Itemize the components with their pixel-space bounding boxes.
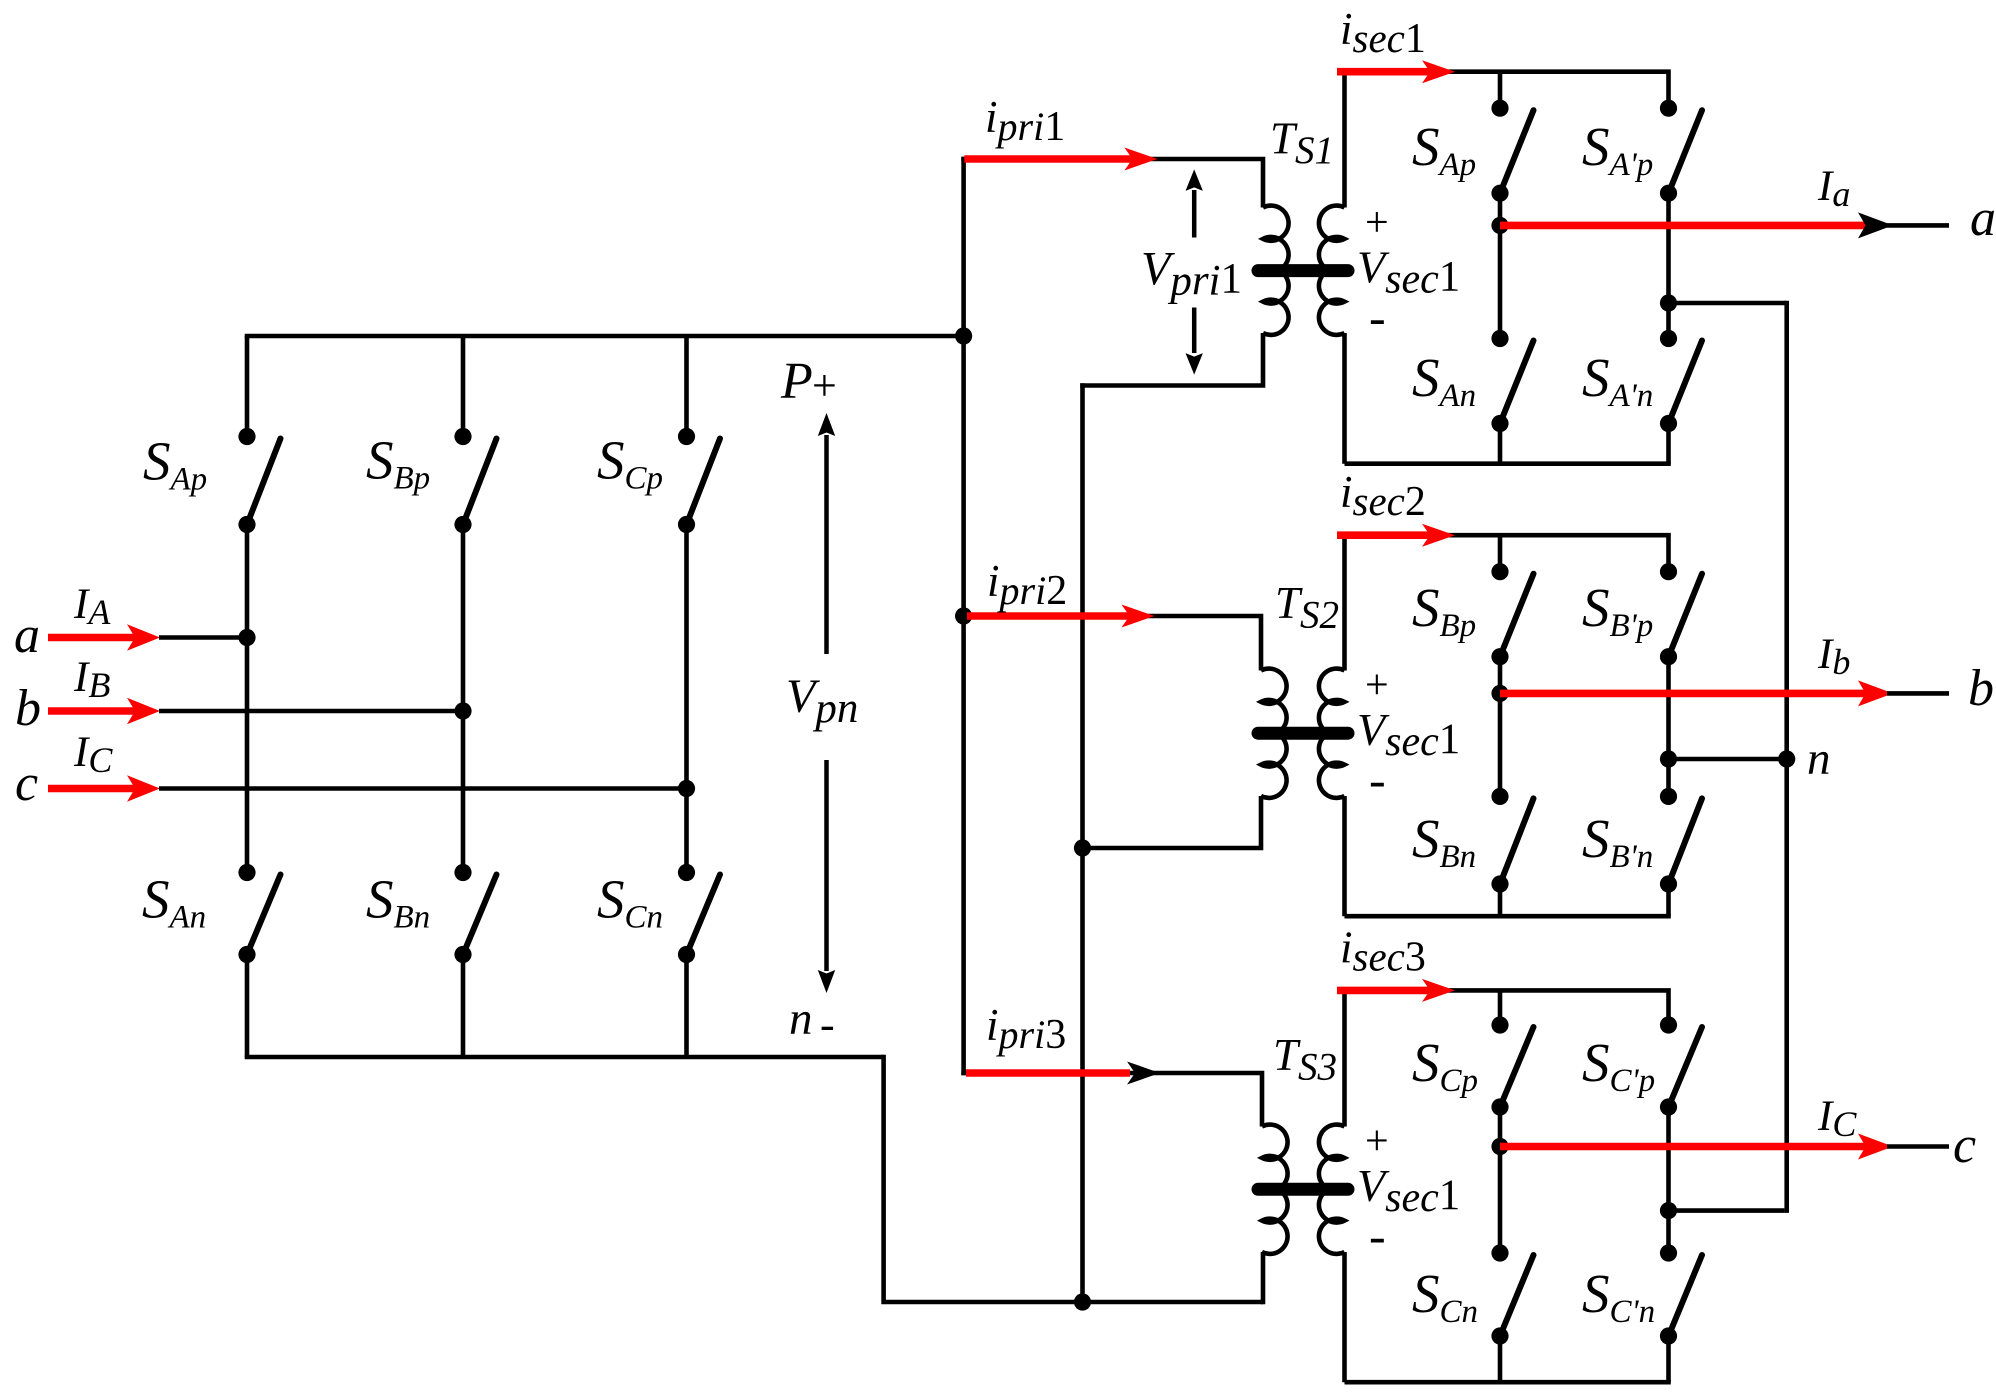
wire T_S2 secondary feed up	[1342, 535, 1347, 670]
svg-text:-: -	[1369, 752, 1386, 808]
label + V_sec3 plus	[1365, 1119, 1389, 1165]
node P bus / matrix top bus	[955, 327, 972, 344]
arrow Vpn down	[818, 760, 835, 993]
wire bridge1 right leg mid	[1666, 193, 1671, 338]
wire bridge1 left leg bottom	[1498, 424, 1503, 464]
label S_B'n	[1582, 808, 1653, 875]
transformer T_S2 secondary winding	[1319, 669, 1345, 798]
wire column A middle	[245, 525, 250, 873]
current arrow i_pri1	[964, 148, 1157, 171]
transformer T_S3 secondary winding	[1319, 1125, 1345, 1254]
wire bridge3 output to terminal c	[1887, 1144, 1949, 1149]
label S_A'p	[1582, 116, 1653, 183]
label V_sec1 on T_S3	[1357, 1160, 1460, 1221]
switch S_An	[238, 864, 280, 963]
current arrow i_sec1	[1337, 60, 1455, 83]
transformer T_S2 primary winding	[1261, 669, 1287, 798]
wire column A upper	[245, 336, 250, 437]
switch S_An	[1491, 330, 1533, 432]
label S_Bn	[366, 869, 430, 936]
wire column B middle	[461, 525, 466, 873]
svg-text:P: P	[780, 353, 813, 410]
label S_A'n	[1582, 347, 1653, 414]
label S_Ap	[1412, 116, 1476, 183]
transformer T_S2 core	[1258, 727, 1348, 740]
wire bridge1 left leg mid	[1498, 193, 1503, 338]
wire i_pri2 to T_S2 primary	[964, 616, 1261, 671]
label S_Bn	[1412, 808, 1476, 875]
label S_An	[142, 869, 206, 936]
wire n bus vertical	[1784, 301, 1789, 1213]
label I_c	[1817, 1093, 1857, 1144]
wire column C upper	[684, 336, 689, 437]
wire bridge3 bottom bus	[1345, 1380, 1671, 1385]
wire column C lower	[684, 955, 689, 1058]
node bridge2 output junction	[1491, 685, 1508, 702]
label I_b	[1817, 631, 1850, 682]
current arrow i_sec2	[1337, 524, 1455, 547]
current arrow I_c	[1500, 1134, 1893, 1160]
node c-C junction	[678, 780, 695, 797]
arrow Vpn up	[818, 413, 835, 654]
label - V_sec2 minus	[1369, 752, 1386, 808]
switch S_B'n	[1660, 788, 1702, 893]
node return bus / T_S2 return	[1074, 839, 1091, 856]
wire i_pri3 to T_S3 primary	[961, 1073, 1262, 1127]
label S_Bp	[1412, 577, 1476, 644]
label V_pn	[786, 670, 858, 732]
switch S_Bn	[454, 864, 496, 963]
node b-B junction	[454, 702, 471, 719]
switch S_Ap	[1491, 100, 1533, 202]
wire bridge2 right leg bottom	[1666, 884, 1671, 916]
switch S_C'p	[1660, 1016, 1702, 1115]
svg-text:b: b	[15, 680, 41, 737]
switch S_B'p	[1660, 563, 1702, 665]
wire column C middle	[684, 525, 689, 873]
label c output	[1953, 1117, 1976, 1174]
label i_pri2	[987, 556, 1067, 614]
node a-A junction	[238, 629, 255, 646]
svg-text:+: +	[1365, 1119, 1389, 1165]
transformer T_S3 core	[1258, 1183, 1348, 1196]
wire bridge1 bottom bus	[1345, 461, 1671, 466]
label S_Cp	[1412, 1032, 1478, 1099]
label S_Bp	[366, 430, 430, 497]
wire bridge2 left leg drop	[1498, 535, 1503, 572]
label S_B'p	[1582, 577, 1653, 644]
label P +	[780, 353, 837, 410]
switch S_C'n	[1660, 1244, 1702, 1344]
node bridge3 n junction	[1660, 1202, 1677, 1219]
svg-text:+: +	[1365, 200, 1389, 246]
label T_S3	[1273, 1030, 1337, 1089]
wire T_S3 secondary feed up	[1342, 990, 1347, 1126]
switch S_A'n	[1660, 330, 1702, 432]
switch S_A'p	[1660, 100, 1702, 202]
wire column B lower	[461, 955, 466, 1058]
wire bridge1 right leg bottom	[1666, 424, 1671, 464]
current arrow i_pri3	[966, 1062, 1160, 1085]
svg-text:-: -	[820, 1000, 835, 1049]
label S_An	[1412, 347, 1476, 414]
wire bridge3 right leg bottom	[1666, 1336, 1671, 1382]
wire primary bus P vertical	[961, 157, 966, 1076]
switch S_Ap	[238, 428, 280, 533]
label i_pri1	[985, 92, 1065, 150]
label i_pri3	[986, 1000, 1066, 1058]
wire bridge2 n link	[1669, 757, 1787, 762]
wire bridge2 left leg mid	[1498, 657, 1503, 797]
wire column B upper	[461, 336, 466, 437]
node bridge3 output junction	[1491, 1138, 1508, 1155]
wire bridge1 output to terminal a	[1887, 223, 1949, 228]
label I_C input	[73, 729, 113, 780]
wire bridge2 output to terminal b	[1887, 691, 1949, 696]
label i_sec3	[1340, 923, 1426, 981]
label V_sec1 on T_S2	[1357, 704, 1460, 765]
svg-text:-: -	[1369, 1208, 1386, 1264]
wire bridge3 right leg mid	[1666, 1107, 1671, 1253]
current arrow i_pri2	[967, 605, 1155, 628]
wire input b	[159, 709, 463, 714]
wire bridge2 left leg bottom	[1498, 884, 1503, 916]
switch S_Cp	[1491, 1016, 1533, 1115]
svg-text:n: n	[789, 993, 813, 1045]
svg-text:a: a	[14, 607, 40, 664]
wire bridge3 top bus	[1345, 990, 1669, 1025]
label T_S1	[1270, 113, 1334, 172]
label i_sec1	[1340, 4, 1426, 62]
label S_Cn	[1412, 1263, 1478, 1330]
label I_B	[73, 654, 110, 705]
wire return bus vertical	[1080, 383, 1085, 1302]
wire input dc-link top bus P	[245, 334, 964, 339]
svg-text:+: +	[1365, 663, 1389, 709]
wire T_S2 secondary feed down	[1342, 796, 1347, 916]
switch S_Cn	[678, 864, 720, 963]
transformer T_S1 primary winding	[1263, 206, 1289, 335]
svg-text:a: a	[1970, 190, 1996, 247]
switch S_Bp	[454, 428, 496, 533]
current arrow I_a	[1500, 212, 1893, 238]
current arrow I_B	[48, 698, 160, 724]
label S_C'n	[1582, 1263, 1655, 1330]
wire input c	[159, 786, 687, 791]
label i_sec2	[1340, 467, 1426, 525]
wire bridge3 n link	[1669, 1208, 1785, 1213]
label S_C'p	[1582, 1032, 1655, 1099]
svg-text:+: +	[812, 361, 837, 410]
wire bridge3 left leg drop	[1498, 990, 1503, 1025]
wire bridge2 top bus	[1345, 535, 1669, 572]
label n node	[1807, 733, 1831, 785]
transformer T_S1 secondary winding	[1319, 206, 1345, 335]
label I_a	[1817, 163, 1850, 214]
wire matrix n-bus to T_S3 primary return	[884, 1055, 1263, 1302]
arrow V_pri1 down	[1186, 308, 1203, 375]
label + V_sec2 plus	[1365, 663, 1389, 709]
wire bridge2 right leg mid	[1666, 657, 1671, 797]
svg-text:b: b	[1968, 660, 1994, 717]
node P bus / i_pri2 tap	[955, 607, 972, 624]
svg-text:c: c	[1953, 1117, 1976, 1174]
node n bus / bridge2	[1778, 750, 1795, 767]
wire T_S1 secondary feed down	[1342, 333, 1347, 464]
wire bridge1 left leg drop	[1498, 72, 1503, 109]
label + V_sec1 plus	[1365, 200, 1389, 246]
node return bus / T_S3 return	[1074, 1293, 1091, 1310]
wire T_S2 primary return	[1080, 796, 1261, 848]
label V_pri1	[1141, 243, 1242, 305]
wire T_S1 secondary feed up	[1342, 72, 1347, 208]
wire bridge3 left leg mid	[1498, 1107, 1503, 1253]
node bridge1 n junction	[1660, 294, 1677, 311]
label I_A	[73, 581, 111, 632]
label S_Cn	[597, 869, 663, 936]
wire T_S3 secondary feed down	[1342, 1252, 1347, 1382]
current arrow I_A	[48, 624, 160, 650]
switch S_Bp	[1491, 563, 1533, 665]
label a output	[1970, 190, 1996, 247]
svg-text:n: n	[1807, 733, 1831, 785]
label n -	[789, 993, 835, 1049]
label V_sec1	[1357, 242, 1460, 303]
svg-text:-: -	[1369, 289, 1386, 345]
wire input a	[159, 635, 247, 640]
wire i_pri1 to T_S1 primary	[961, 159, 1263, 208]
label - V_sec3 minus	[1369, 1208, 1386, 1264]
transformer T_S3 primary winding	[1262, 1125, 1288, 1254]
label S_Cp	[597, 430, 663, 497]
label c input	[15, 755, 38, 812]
wire column A lower	[245, 955, 250, 1058]
svg-text:c: c	[15, 755, 38, 812]
wire bridge1 top bus	[1345, 72, 1669, 109]
current arrow i_sec3	[1337, 979, 1455, 1002]
wire T_S1 primary return	[1080, 333, 1263, 386]
wire bridge2 bottom bus	[1345, 914, 1671, 919]
wire matrix bottom bus n	[245, 1055, 884, 1060]
switch S_Bn	[1491, 788, 1533, 893]
label T_S2	[1275, 578, 1339, 637]
label b output	[1968, 660, 1994, 717]
label S_Ap	[143, 431, 207, 498]
node bridge2 n junction	[1660, 750, 1677, 767]
node bridge1 output junction	[1491, 217, 1508, 234]
switch S_Cn	[1491, 1244, 1533, 1344]
switch S_Cp	[678, 428, 720, 533]
current arrow I_C input	[48, 775, 160, 801]
wire bridge3 left leg bottom	[1498, 1336, 1503, 1382]
label a input	[14, 607, 40, 664]
wire bridge1 n link	[1671, 301, 1787, 306]
current arrow I_b	[1500, 680, 1893, 706]
label - V_sec1 minus	[1369, 289, 1386, 345]
arrow V_pri1 up	[1186, 169, 1203, 237]
label b input	[15, 680, 41, 737]
transformer T_S1 core	[1258, 264, 1348, 277]
wire T_S3 primary return	[1261, 1252, 1266, 1304]
